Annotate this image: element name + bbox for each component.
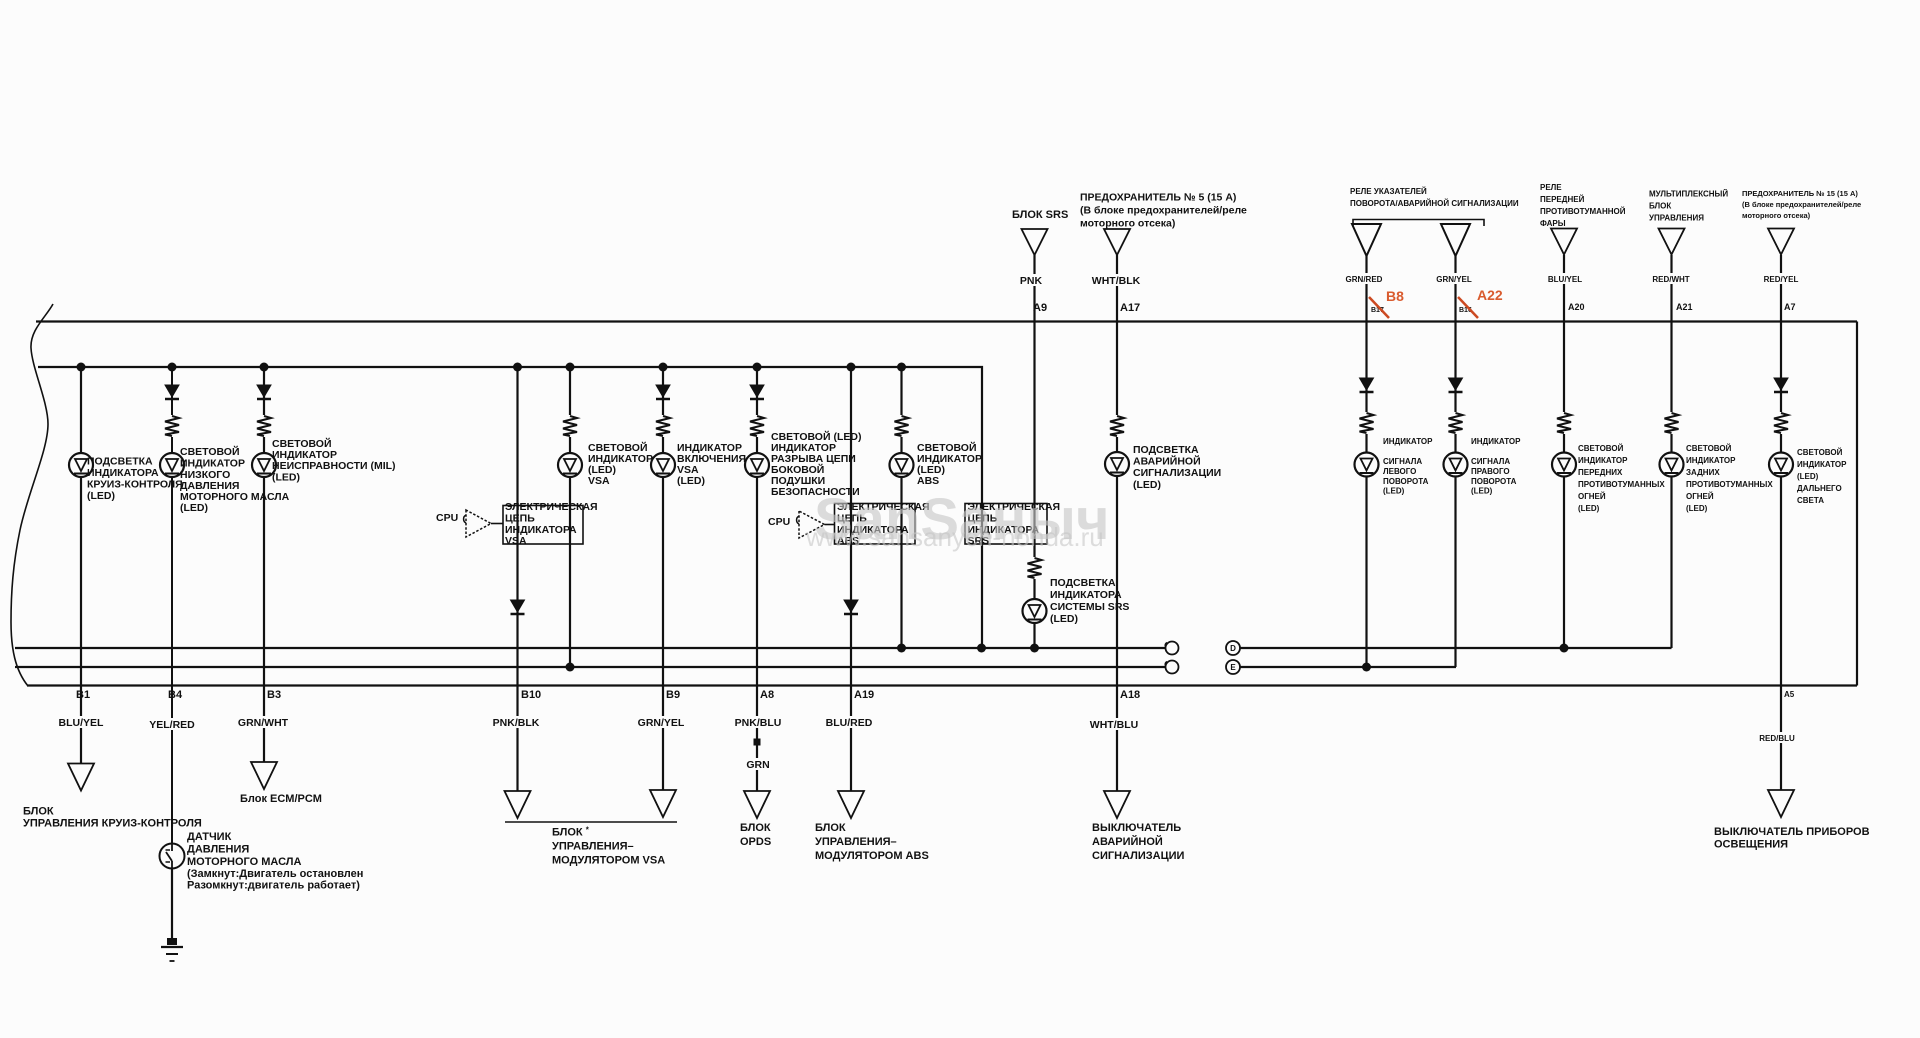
svg-text:УПРАВЛЕНИЯ КРУИЗ-КОНТРОЛЯ: УПРАВЛЕНИЯ КРУИЗ-КОНТРОЛЯ bbox=[23, 818, 202, 830]
svg-text:B3: B3 bbox=[267, 689, 281, 701]
svg-text:РЕЛЕ УКАЗАТЕЛЕЙ: РЕЛЕ УКАЗАТЕЛЕЙ bbox=[1350, 187, 1427, 196]
VSA modulator underline bbox=[505, 821, 677, 823]
svg-text:CPU: CPU bbox=[436, 512, 458, 524]
arrow to VSA modulator B9 bbox=[650, 790, 676, 817]
svg-text:ОГНЕЙ: ОГНЕЙ bbox=[1578, 492, 1606, 501]
SRS indicator circuit box bbox=[965, 504, 1047, 545]
pin A7 bbox=[1784, 302, 1796, 312]
svg-text:МОТОРНОГО МАСЛА: МОТОРНОГО МАСЛА bbox=[187, 856, 301, 868]
node B10 bus tap bbox=[513, 363, 522, 372]
svg-text:(LED): (LED) bbox=[1686, 504, 1708, 513]
label wire color BLU/YEL bottom bbox=[57, 716, 107, 729]
svg-text:BLU/YEL: BLU/YEL bbox=[59, 717, 105, 729]
resistor R6 ABS LED column bbox=[894, 415, 910, 437]
label cruise control unit bbox=[23, 806, 202, 830]
resistor R13 high beam column bbox=[1773, 412, 1789, 434]
svg-text:PNK/BLU: PNK/BLU bbox=[735, 717, 782, 729]
svg-text:(LED): (LED) bbox=[272, 472, 300, 484]
label multiplex unit bbox=[1649, 190, 1728, 223]
label wire color PNK/BLU bbox=[734, 716, 784, 729]
svg-text:ПЕРЕДНИХ: ПЕРЕДНИХ bbox=[1578, 468, 1623, 477]
label wire color RED/YEL bbox=[1760, 273, 1802, 284]
svg-text:РЕЛЕ: РЕЛЕ bbox=[1540, 183, 1562, 192]
wire A8 bbox=[756, 367, 758, 791]
label VSA LED bbox=[588, 441, 653, 487]
diode D5 A19 column bbox=[844, 600, 858, 614]
pin A5 bbox=[1784, 690, 1795, 699]
wire B16 bbox=[1454, 256, 1456, 667]
node A8 splice square bbox=[754, 739, 761, 746]
svg-text:СВЕТОВОЙ: СВЕТОВОЙ bbox=[1686, 444, 1732, 453]
node A20 D-net join bbox=[1560, 644, 1569, 653]
svg-text:ИНДИКАТОРА: ИНДИКАТОРА bbox=[87, 467, 159, 479]
LED hazard backlight bbox=[1105, 452, 1129, 476]
node SRS feed ground join bbox=[977, 644, 986, 653]
svg-text:КРУИЗ-КОНТРОЛЯ: КРУИЗ-КОНТРОЛЯ bbox=[87, 479, 183, 491]
LED MIL indicator bbox=[252, 453, 276, 477]
label left turn indicator bbox=[1383, 437, 1433, 496]
label ABS modulator unit bbox=[815, 822, 929, 862]
node B1 bus tap bbox=[77, 363, 86, 372]
VSA indicator circuit box bbox=[503, 506, 583, 545]
connector triangle A21 from multiplex unit bbox=[1659, 229, 1685, 255]
svg-text:OPDS: OPDS bbox=[740, 836, 771, 848]
resistor R2 MIL column bbox=[256, 415, 272, 437]
label hazard backlight bbox=[1133, 444, 1221, 491]
wire B3 bbox=[263, 367, 265, 763]
label SRS circuit box text bbox=[968, 501, 1061, 547]
svg-text:RED/YEL: RED/YEL bbox=[1764, 275, 1799, 284]
label wire color PNK bbox=[1018, 274, 1046, 287]
svg-text:A9: A9 bbox=[1033, 302, 1047, 314]
svg-text:АВАРИЙНОЙ: АВАРИЙНОЙ bbox=[1133, 455, 1201, 468]
svg-text:ОГНЕЙ: ОГНЕЙ bbox=[1686, 492, 1714, 501]
svg-text:ДАВЛЕНИЯ: ДАВЛЕНИЯ bbox=[187, 844, 249, 856]
wire B9 bbox=[662, 367, 664, 790]
svg-text:(LED): (LED) bbox=[1578, 504, 1600, 513]
svg-text:ПОВОРОТА: ПОВОРОТА bbox=[1471, 477, 1517, 486]
svg-text:СИГНАЛИЗАЦИИ: СИГНАЛИЗАЦИИ bbox=[1092, 850, 1185, 862]
label rear fog indicator bbox=[1686, 444, 1773, 513]
svg-text:Разомкнут:двигатель работает): Разомкнут:двигатель работает) bbox=[187, 880, 360, 892]
svg-text:WHT/BLU: WHT/BLU bbox=[1090, 719, 1138, 731]
pin A19 bbox=[854, 689, 874, 701]
svg-text:Блок ECM/PCM: Блок ECM/PCM bbox=[240, 793, 322, 805]
svg-text:ЭЛЕКТРИЧЕСКАЯ: ЭЛЕКТРИЧЕСКАЯ bbox=[505, 501, 598, 513]
svg-text:БЛОК: БЛОК bbox=[815, 822, 846, 834]
LED rear fog indicator bbox=[1660, 453, 1684, 477]
svg-text:ИНДИКАТОР: ИНДИКАТОР bbox=[180, 458, 245, 470]
svg-text:ПОВОРОТА/АВАРИЙНОЙ СИГНАЛИЗАЦИ: ПОВОРОТА/АВАРИЙНОЙ СИГНАЛИЗАЦИИ bbox=[1350, 199, 1519, 208]
LED VSA indicator bbox=[558, 453, 582, 477]
label SRS backlight bbox=[1050, 577, 1129, 625]
svg-text:(LED): (LED) bbox=[1050, 613, 1078, 625]
svg-text:УПРАВЛЕНИЯ–: УПРАВЛЕНИЯ– bbox=[815, 836, 897, 848]
label BLOK SRS bbox=[1012, 209, 1068, 221]
svg-text:СИГНАЛА: СИГНАЛА bbox=[1471, 457, 1510, 466]
ground bus wire 1 bbox=[15, 647, 1165, 649]
arrow to ABS modulator bbox=[838, 791, 864, 818]
label ECM PCM bbox=[240, 793, 322, 805]
label turn hazard relay bbox=[1350, 187, 1519, 208]
svg-text:(Замкнут:Двигатель остановлен: (Замкнут:Двигатель остановлен bbox=[187, 868, 363, 880]
annotation A22 orange bbox=[1458, 287, 1503, 318]
resistor R8 SRS backlight column bbox=[1027, 557, 1043, 579]
pin A8 bbox=[760, 689, 774, 701]
svg-text:ИНДИКАТОР: ИНДИКАТОР bbox=[1686, 456, 1736, 465]
svg-text:PNK: PNK bbox=[1020, 275, 1043, 287]
svg-text:(LED): (LED) bbox=[1471, 487, 1493, 496]
label fuse 15 bbox=[1742, 189, 1861, 220]
resistor R11 front fog column bbox=[1556, 412, 1572, 434]
resistor R5 side airbag column bbox=[749, 415, 765, 437]
svg-text:СВЕТА: СВЕТА bbox=[1797, 496, 1824, 505]
LED cruise backlight bbox=[69, 453, 93, 477]
wire VSA indicator branch bbox=[569, 367, 571, 667]
label side airbag indicator bbox=[771, 430, 861, 498]
svg-text:B8: B8 bbox=[1386, 288, 1404, 304]
svg-text:GRN/RED: GRN/RED bbox=[1346, 275, 1383, 284]
svg-text:ИНДИКАТОР: ИНДИКАТОР bbox=[1383, 437, 1433, 446]
bracket over turn relay triangles bbox=[1353, 220, 1484, 227]
label OPDS unit bbox=[740, 822, 771, 848]
label hazard switch bbox=[1092, 822, 1185, 862]
svg-text:GRN/YEL: GRN/YEL bbox=[1436, 275, 1472, 284]
svg-text:ДАЛЬНЕГО: ДАЛЬНЕГО bbox=[1797, 484, 1842, 493]
instrument cluster block top edge bbox=[36, 320, 1857, 322]
LED right turn indicator bbox=[1444, 453, 1468, 477]
svg-text:ФАРЫ: ФАРЫ bbox=[1540, 219, 1566, 228]
connector triangle A9 from SRS unit bbox=[1022, 229, 1048, 255]
svg-text:УПРАВЛЕНИЯ: УПРАВЛЕНИЯ bbox=[1649, 214, 1704, 223]
svg-text:A21: A21 bbox=[1676, 302, 1693, 312]
node E connector circle bbox=[1226, 660, 1240, 674]
svg-text:ИНДИКАТОР: ИНДИКАТОР bbox=[1797, 460, 1847, 469]
label cruise backlight bbox=[87, 456, 183, 503]
wire B17 bbox=[1365, 256, 1367, 667]
svg-text:ПРЕДОХРАНИТЕЛЬ № 5 (15 А): ПРЕДОХРАНИТЕЛЬ № 5 (15 А) bbox=[1080, 192, 1236, 204]
wire A17-A18 bbox=[1116, 255, 1118, 791]
label wire color BLU/YEL top bbox=[1544, 273, 1586, 284]
wire A21 bbox=[1670, 255, 1672, 648]
label wire color RED/WHT bbox=[1650, 273, 1693, 284]
node SRS lamp ground join bbox=[1030, 644, 1039, 653]
pin B4 bbox=[168, 689, 183, 701]
svg-text:УПРАВЛЕНИЯ–: УПРАВЛЕНИЯ– bbox=[552, 841, 634, 853]
label wire color PNK/BLK bbox=[492, 716, 542, 729]
instrument cluster block torn left edge bbox=[11, 304, 53, 686]
label wire color WHT/BLU bbox=[1090, 718, 1142, 731]
label CPU U2 bbox=[768, 516, 790, 528]
node A19 bus tap bbox=[847, 363, 856, 372]
pin B16 bbox=[1459, 307, 1472, 314]
svg-text:БЛОК: БЛОК bbox=[740, 822, 771, 834]
label CPU U1 bbox=[436, 512, 458, 524]
arrow to ECM PCM bbox=[251, 762, 277, 789]
pin B3 bbox=[267, 689, 281, 701]
svg-text:ПРЕДОХРАНИТЕЛЬ № 15 (15 А): ПРЕДОХРАНИТЕЛЬ № 15 (15 А) bbox=[1742, 189, 1858, 198]
svg-text:ДАТЧИК: ДАТЧИК bbox=[187, 831, 232, 843]
connector triangle B16 from turn relay bbox=[1441, 224, 1470, 256]
svg-text:BLU/YEL: BLU/YEL bbox=[1548, 275, 1582, 284]
label wire color WHT/BLK bbox=[1091, 274, 1143, 287]
svg-text:(LED): (LED) bbox=[677, 475, 705, 487]
resistor R7 hazard backlight column bbox=[1109, 415, 1125, 437]
label MIL indicator bbox=[272, 437, 396, 484]
LED oil pressure indicator bbox=[160, 453, 184, 477]
label front fog relay bbox=[1540, 183, 1626, 228]
op-amp U1 VSA CPU driver bbox=[464, 510, 503, 537]
svg-text:БЛОК SRS: БЛОК SRS bbox=[1012, 209, 1068, 221]
LED VSA on indicator bbox=[651, 453, 675, 477]
label wire color RED/BLU bbox=[1757, 732, 1799, 743]
svg-text:B10: B10 bbox=[521, 689, 541, 701]
wire A7-A5 bbox=[1780, 255, 1782, 790]
wire B1 bbox=[80, 367, 82, 764]
svg-text:(LED): (LED) bbox=[1383, 487, 1405, 496]
label VSA circuit box text bbox=[505, 501, 598, 547]
label wire color YEL/RED bbox=[148, 718, 198, 731]
pin B9 bbox=[666, 689, 680, 701]
label wire color GRN/YEL bottom bbox=[637, 716, 687, 729]
svg-text:E: E bbox=[1230, 663, 1236, 672]
wire ABS indicator branch bbox=[900, 367, 902, 648]
svg-text:ОСВЕЩЕНИЯ: ОСВЕЩЕНИЯ bbox=[1714, 839, 1788, 851]
svg-text:B9: B9 bbox=[666, 689, 680, 701]
diode D2 MIL column bbox=[257, 385, 271, 399]
pin A9 bbox=[1033, 302, 1047, 314]
arrow to VSA modulator B10 bbox=[505, 791, 531, 818]
svg-text:МОДУЛЯТОРОМ VSA: МОДУЛЯТОРОМ VSA bbox=[552, 855, 665, 867]
svg-text:ИНДИКАТОРА: ИНДИКАТОРА bbox=[1050, 589, 1122, 601]
pin B10 bbox=[521, 689, 541, 701]
svg-text:МУЛЬТИПЛЕКСНЫЙ: МУЛЬТИПЛЕКСНЫЙ bbox=[1649, 190, 1728, 199]
arrow to cruise control unit bbox=[68, 764, 94, 791]
svg-text:ПРАВОГО: ПРАВОГО bbox=[1471, 467, 1510, 476]
svg-text:СВЕТОВОЙ: СВЕТОВОЙ bbox=[1578, 444, 1624, 453]
label right turn indicator bbox=[1471, 437, 1521, 496]
svg-text:B4: B4 bbox=[168, 689, 183, 701]
svg-text:АВАРИЙНОЙ: АВАРИЙНОЙ bbox=[1092, 835, 1163, 848]
svg-text:ПРОТИВОТУМАННЫХ: ПРОТИВОТУМАННЫХ bbox=[1578, 480, 1665, 489]
label wire color BLU/RED bbox=[825, 716, 875, 729]
ground symbol bbox=[161, 938, 183, 961]
wire A19 bbox=[850, 367, 852, 791]
svg-text:ПОВОРОТА: ПОВОРОТА bbox=[1383, 477, 1429, 486]
svg-text:ЛЕВОГО: ЛЕВОГО bbox=[1383, 467, 1416, 476]
op-amp U2 ABS CPU driver bbox=[797, 511, 835, 538]
svg-text:GRN: GRN bbox=[746, 759, 769, 771]
label wire color GRN/RED bbox=[1345, 273, 1388, 284]
instrument cluster block right edge bbox=[1856, 322, 1858, 686]
connector pigtail bus1 bbox=[1165, 642, 1178, 655]
arrow to lighting switch bbox=[1768, 790, 1794, 817]
resistor R10 right turn column bbox=[1448, 412, 1464, 434]
diode D3 side airbag column bbox=[750, 385, 764, 399]
svg-text:PNK/BLK: PNK/BLK bbox=[493, 717, 540, 729]
svg-text:A20: A20 bbox=[1568, 302, 1585, 312]
svg-text:ЗАДНИХ: ЗАДНИХ bbox=[1686, 468, 1720, 477]
svg-text:СИГНАЛА: СИГНАЛА bbox=[1383, 457, 1422, 466]
label ABS circuit box text bbox=[837, 501, 930, 547]
svg-text:B1: B1 bbox=[76, 689, 90, 701]
svg-text:RED/WHT: RED/WHT bbox=[1652, 275, 1689, 284]
svg-text:ABS: ABS bbox=[917, 475, 939, 487]
connector triangle A17 from fuse 5 bbox=[1104, 229, 1130, 255]
pin A17 bbox=[1120, 302, 1140, 314]
node ABS branch ground join bbox=[897, 644, 906, 653]
svg-text:www.sansanych-honda.ru: www.sansanych-honda.ru bbox=[805, 522, 1104, 552]
svg-text:БЛОК: БЛОК bbox=[1649, 202, 1671, 211]
svg-text:YEL/RED: YEL/RED bbox=[149, 719, 195, 731]
diode D9 VSA on column bbox=[656, 385, 670, 399]
wire A20 bbox=[1563, 255, 1565, 648]
resistor R12 rear fog column bbox=[1664, 412, 1680, 434]
node B4 bus tap bbox=[168, 363, 177, 372]
node ABS branch bus tap bbox=[897, 363, 906, 372]
node B3 bus tap bbox=[260, 363, 269, 372]
LED front fog indicator bbox=[1552, 453, 1576, 477]
node B17 E-net join bbox=[1362, 663, 1371, 672]
pin A21 bbox=[1676, 302, 1693, 312]
label fuse 5 bbox=[1080, 192, 1247, 230]
svg-text:(LED): (LED) bbox=[180, 502, 208, 514]
svg-text:VSA: VSA bbox=[505, 535, 527, 547]
oil pressure switch S1 bbox=[160, 844, 185, 869]
svg-text:A8: A8 bbox=[760, 689, 774, 701]
label VSA on indicator bbox=[677, 442, 746, 487]
svg-text:BLU/RED: BLU/RED bbox=[826, 717, 873, 729]
connector pigtail bus2 bbox=[1165, 661, 1178, 674]
svg-text:СВЕТОВОЙ: СВЕТОВОЙ bbox=[180, 445, 240, 458]
svg-text:моторного отсека): моторного отсека) bbox=[1742, 211, 1811, 220]
svg-text:GRN/WHT: GRN/WHT bbox=[238, 717, 289, 729]
svg-text:БЛОК *: БЛОК * bbox=[552, 826, 590, 839]
label front fog indicator bbox=[1578, 444, 1665, 513]
svg-text:ВЫКЛЮЧАТЕЛЬ: ВЫКЛЮЧАТЕЛЬ bbox=[1092, 822, 1181, 834]
diode D1 oil pressure column bbox=[165, 385, 179, 399]
label wire color GRN/YEL top bbox=[1434, 273, 1477, 284]
label wire color GRN bbox=[744, 758, 772, 771]
svg-text:(В блоке предохранителей/реле: (В блоке предохранителей/реле bbox=[1742, 200, 1861, 209]
node B9 bus tap bbox=[659, 363, 668, 372]
label VSA modulator unit bbox=[552, 826, 665, 867]
svg-text:БЛОК: БЛОК bbox=[23, 806, 54, 818]
svg-text:D: D bbox=[1230, 644, 1236, 653]
ground bus wire 2 bbox=[15, 666, 1165, 668]
pin B17 bbox=[1371, 307, 1384, 314]
LED left turn indicator bbox=[1355, 453, 1379, 477]
label oil pressure sensor bbox=[187, 831, 363, 892]
svg-text:A5: A5 bbox=[1784, 690, 1795, 699]
node VSA branch ground join bbox=[566, 663, 575, 672]
instrument cluster block bottom edge bbox=[27, 684, 1857, 686]
svg-text:VSA: VSA bbox=[588, 475, 610, 487]
svg-text:ИНДИКАТОР: ИНДИКАТОР bbox=[1578, 456, 1628, 465]
svg-text:A22: A22 bbox=[1477, 287, 1503, 303]
svg-text:ПРОТИВОТУМАННОЙ: ПРОТИВОТУМАННОЙ bbox=[1540, 207, 1626, 216]
svg-text:(LED): (LED) bbox=[1133, 479, 1161, 491]
svg-text:GRN/YEL: GRN/YEL bbox=[638, 717, 685, 729]
svg-text:ПРОТИВОТУМАННЫХ: ПРОТИВОТУМАННЫХ bbox=[1686, 480, 1773, 489]
wire B4 bbox=[171, 367, 173, 941]
node VSA branch bus tap bbox=[566, 363, 575, 372]
svg-text:МОДУЛЯТОРОМ ABS: МОДУЛЯТОРОМ ABS bbox=[815, 850, 929, 862]
LED ABS indicator bbox=[890, 453, 914, 477]
arrow to hazard switch bbox=[1104, 791, 1130, 818]
svg-text:A17: A17 bbox=[1120, 302, 1140, 314]
label ABS LED bbox=[917, 441, 982, 487]
diode D4 B10 column bbox=[511, 600, 525, 614]
svg-text:моторного отсека): моторного отсека) bbox=[1080, 218, 1175, 230]
svg-text:A18: A18 bbox=[1120, 689, 1140, 701]
svg-text:(LED): (LED) bbox=[87, 490, 115, 502]
annotation B8 orange bbox=[1369, 288, 1404, 318]
watermark bbox=[805, 487, 1110, 552]
svg-text:ПОДСВЕТКА: ПОДСВЕТКА bbox=[87, 456, 153, 468]
LED side airbag indicator bbox=[745, 453, 769, 477]
svg-text:ПОДСВЕТКА: ПОДСВЕТКА bbox=[1050, 577, 1116, 589]
wire D net bbox=[1240, 647, 1672, 649]
svg-text:RED/BLU: RED/BLU bbox=[1759, 734, 1795, 743]
svg-text:A19: A19 bbox=[854, 689, 874, 701]
label oil pressure indicator bbox=[180, 445, 290, 514]
svg-text:CPU: CPU bbox=[768, 516, 790, 528]
label high beam indicator bbox=[1797, 448, 1847, 505]
svg-text:ЦЕПЬ: ЦЕПЬ bbox=[505, 513, 535, 525]
resistor R4 VSA on column bbox=[655, 415, 671, 437]
label lighting switch bbox=[1714, 826, 1870, 851]
wire A9 bbox=[1033, 255, 1035, 648]
label wire color GRN/WHT bbox=[238, 716, 290, 729]
svg-text:A7: A7 bbox=[1784, 302, 1796, 312]
main power bus wire bbox=[38, 367, 982, 648]
svg-text:СИСТЕМЫ SRS: СИСТЕМЫ SRS bbox=[1050, 601, 1129, 613]
diode D8 high beam column bbox=[1774, 378, 1788, 392]
pin A18 bbox=[1120, 689, 1140, 701]
node A8 bus tap bbox=[753, 363, 762, 372]
svg-text:СИГНАЛИЗАЦИИ: СИГНАЛИЗАЦИИ bbox=[1133, 467, 1221, 479]
svg-text:ПЕРЕДНЕЙ: ПЕРЕДНЕЙ bbox=[1540, 195, 1585, 204]
resistor R3 VSA LED column bbox=[562, 415, 578, 437]
svg-text:WHT/BLK: WHT/BLK bbox=[1092, 275, 1141, 287]
svg-text:ПОДСВЕТКА: ПОДСВЕТКА bbox=[1133, 444, 1199, 456]
svg-text:(В блоке предохранителей/реле: (В блоке предохранителей/реле bbox=[1080, 205, 1247, 217]
svg-text:(LED): (LED) bbox=[1797, 472, 1819, 481]
ABS indicator circuit box bbox=[835, 504, 916, 545]
pin B1 bbox=[76, 689, 90, 701]
LED SRS backlight bbox=[1023, 599, 1047, 623]
diode D6 left turn column bbox=[1360, 378, 1374, 392]
connector triangle A20 from fog relay bbox=[1551, 229, 1577, 255]
svg-text:СВЕТОВОЙ: СВЕТОВОЙ bbox=[1797, 448, 1843, 457]
LED high beam indicator bbox=[1769, 453, 1793, 477]
svg-text:ВЫКЛЮЧАТЕЛЬ ПРИБОРОВ: ВЫКЛЮЧАТЕЛЬ ПРИБОРОВ bbox=[1714, 826, 1870, 838]
svg-text:ИНДИКАТОР: ИНДИКАТОР bbox=[1471, 437, 1521, 446]
svg-text:НЕИСПРАВНОСТИ (MIL): НЕИСПРАВНОСТИ (MIL) bbox=[272, 460, 396, 472]
arrow to OPDS unit bbox=[744, 791, 770, 818]
resistor R9 left turn column bbox=[1359, 412, 1375, 434]
pin A20 bbox=[1568, 302, 1585, 312]
connector triangle A7 from fuse 15 bbox=[1768, 229, 1794, 255]
connector triangle B17 from turn relay bbox=[1352, 224, 1381, 256]
node D connector circle bbox=[1226, 641, 1240, 655]
resistor R1 oil pressure column bbox=[164, 415, 180, 437]
wire B10 bbox=[516, 367, 518, 791]
wire E net bbox=[1240, 666, 1456, 668]
diode D7 right turn column bbox=[1449, 378, 1463, 392]
